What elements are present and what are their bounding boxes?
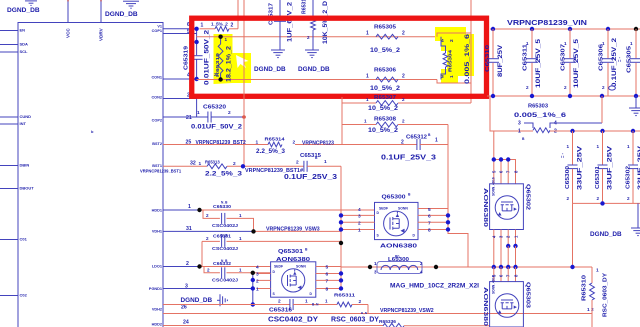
svg-text:C65330: C65330 bbox=[213, 204, 232, 209]
svg-text:C65332: C65332 bbox=[213, 261, 232, 266]
wire vertical node COP1 bbox=[196, 29, 198, 55]
wire R65305 row left segment bbox=[197, 36, 437, 38]
svg-text:1: 1 bbox=[374, 261, 377, 266]
junction bbox=[506, 265, 510, 269]
svg-text:2: 2 bbox=[207, 268, 210, 273]
wire R65304 kelvin hooks bbox=[441, 37, 446, 80]
svg-text:VRPNCP81239_VSW3: VRPNCP81239_VSW3 bbox=[266, 226, 320, 232]
svg-text:2: 2 bbox=[597, 196, 600, 201]
resistor R65305 10_5%_2 bbox=[376, 34, 398, 39]
capacitor C65307 10UF_25V_5 bbox=[569, 29, 571, 58]
svg-text:VDH2: VDH2 bbox=[152, 308, 162, 312]
svg-text:AON6380: AON6380 bbox=[482, 188, 488, 227]
junction bbox=[499, 157, 503, 161]
svg-text:Q65302: Q65302 bbox=[525, 184, 531, 210]
junction bbox=[251, 271, 255, 275]
svg-text:SEDF: SEDF bbox=[379, 206, 388, 210]
junction bbox=[368, 265, 372, 269]
svg-text:SONN: SONN bbox=[296, 265, 306, 269]
svg-text:R65313: R65313 bbox=[205, 160, 220, 165]
capacitor C65320 0.01UF_50V_2 bbox=[163, 116, 208, 118]
svg-text:10_5%_2: 10_5%_2 bbox=[370, 48, 401, 54]
svg-text:2: 2 bbox=[449, 39, 455, 42]
junction bbox=[530, 27, 534, 31]
svg-text:2: 2 bbox=[602, 85, 605, 90]
wire COP1 cap to CON1 bbox=[196, 59, 198, 79]
svg-text:C65307: C65307 bbox=[561, 44, 567, 71]
annotation red box bbox=[192, 18, 487, 96]
capacitor C65319 bbox=[191, 55, 203, 57]
wire VIN rail bbox=[490, 28, 640, 30]
svg-text:32: 32 bbox=[190, 161, 196, 167]
svg-text:1: 1 bbox=[366, 97, 369, 102]
svg-text:R65311: R65311 bbox=[334, 293, 355, 299]
svg-text:1: 1 bbox=[324, 159, 327, 165]
wire pin4 CON1 row bbox=[163, 78, 197, 80]
svg-text:C65320: C65320 bbox=[203, 105, 226, 111]
svg-text:C65306: C65306 bbox=[599, 44, 605, 71]
ground DGND_DB in box left bbox=[271, 49, 285, 51]
resistor R65311 RSC_0603_DY bbox=[337, 302, 352, 307]
capacitor C65300 33UF_25V bbox=[572, 131, 574, 165]
wire Q65301 left pins bbox=[257, 273, 271, 275]
svg-text:21: 21 bbox=[186, 115, 192, 121]
svg-text:INT: INT bbox=[20, 121, 27, 126]
svg-text:2.2_5%_3: 2.2_5%_3 bbox=[205, 171, 242, 178]
svg-text:1: 1 bbox=[518, 129, 521, 135]
junction bbox=[339, 278, 343, 282]
resistor R65307 10_5%_2 bbox=[342, 102, 376, 104]
junction bbox=[251, 286, 255, 290]
svg-text:2: 2 bbox=[401, 140, 404, 146]
resistor R65312 bbox=[312, 0, 314, 18]
svg-text:33UF_25V: 33UF_25V bbox=[577, 145, 584, 190]
ground top right bbox=[635, 96, 637, 108]
svg-text:AON6380: AON6380 bbox=[380, 243, 417, 249]
wire BST2 net to C65312 bbox=[295, 144, 417, 146]
svg-text:R65308: R65308 bbox=[374, 117, 396, 123]
svg-text:COP2: COP2 bbox=[152, 119, 162, 123]
junction bbox=[491, 27, 495, 31]
ground DGND_DB above VDRV bbox=[123, 0, 139, 2]
wire output rail y131 bbox=[550, 130, 640, 132]
svg-text:1 2: 1 2 bbox=[587, 307, 594, 313]
wire red riser x342 bbox=[341, 97, 343, 145]
svg-text:BST1: BST1 bbox=[152, 164, 162, 168]
svg-text:3: 3 bbox=[358, 214, 361, 220]
svg-text:8: 8 bbox=[428, 228, 431, 234]
capacitor C65330 CSC0402 bbox=[203, 210, 254, 231]
wire BST1 row bbox=[163, 165, 207, 167]
svg-text:DBOUT: DBOUT bbox=[20, 186, 35, 191]
wire INT pin stub bbox=[0, 123, 18, 125]
junction bbox=[492, 157, 496, 161]
svg-text:SCL: SCL bbox=[20, 49, 29, 54]
junction bbox=[631, 129, 635, 133]
wire LDO1 row bbox=[163, 266, 200, 268]
junction bbox=[339, 213, 343, 217]
resistor R65309 1_5%_2 bbox=[200, 28, 216, 30]
svg-text:PGND1: PGND1 bbox=[149, 287, 162, 291]
svg-text:2: 2 bbox=[402, 119, 405, 124]
svg-text:C02: C02 bbox=[20, 293, 28, 298]
svg-text:2: 2 bbox=[567, 196, 570, 201]
svg-text:2: 2 bbox=[278, 299, 281, 305]
junction bbox=[339, 286, 343, 290]
svg-text:5: 5 bbox=[326, 265, 329, 271]
svg-text:R65305: R65305 bbox=[374, 25, 396, 31]
svg-text:3: 3 bbox=[441, 74, 444, 80]
svg-text:D: D bbox=[377, 211, 380, 215]
svg-text:CUND: CUND bbox=[20, 114, 32, 119]
junction bbox=[194, 40, 198, 44]
ground DGND_DB sideways bbox=[219, 294, 221, 306]
junction bbox=[251, 302, 255, 306]
svg-text:1: 1 bbox=[325, 299, 328, 304]
svg-text:Q65300: Q65300 bbox=[382, 194, 406, 200]
svg-text:2: 2 bbox=[359, 299, 362, 305]
junction bbox=[634, 27, 638, 31]
wire red riser x244 bbox=[243, 0, 245, 37]
junction bbox=[446, 213, 450, 217]
svg-text:0.01UF_50V_2: 0.01UF_50V_2 bbox=[204, 29, 211, 85]
svg-text:10K_5%_2_D: 10K_5%_2_D bbox=[323, 0, 329, 44]
svg-text:1: 1 bbox=[597, 144, 600, 149]
capacitor C65310 8UF_25V bbox=[492, 29, 494, 58]
svg-text:0.1UF_25V_3: 0.1UF_25V_3 bbox=[284, 174, 337, 181]
svg-text:C65316: C65316 bbox=[269, 308, 292, 314]
svg-text:10_5%_2: 10_5%_2 bbox=[370, 86, 401, 92]
junction bbox=[530, 94, 534, 98]
resistor R65336 bbox=[383, 323, 404, 327]
svg-text:0.005_1%_6: 0.005_1%_6 bbox=[464, 33, 471, 84]
svg-text:SDA: SDA bbox=[20, 42, 29, 47]
svg-text:1: 1 bbox=[239, 213, 242, 218]
svg-text:SONN: SONN bbox=[398, 206, 408, 210]
junction bbox=[600, 94, 604, 98]
junction bbox=[194, 77, 198, 81]
svg-text:1: 1 bbox=[449, 75, 455, 78]
ground DGND_DB in box right bbox=[305, 49, 319, 51]
wire R65303 kelvin bbox=[524, 123, 602, 128]
junction bbox=[251, 278, 255, 282]
resistor R65304 0.005_1%_6 bbox=[443, 53, 448, 67]
wire HDD2 gate row bbox=[163, 325, 383, 327]
svg-text:2: 2 bbox=[420, 261, 423, 266]
resistor R65306 10_5%_2 bbox=[376, 77, 398, 82]
wire EN pin stub bbox=[0, 30, 18, 32]
svg-text:C01: C01 bbox=[20, 237, 28, 242]
wire CUND pin stub bbox=[0, 116, 18, 118]
wire SCL pin stub bbox=[0, 51, 18, 53]
svg-text:4: 4 bbox=[441, 38, 444, 44]
svg-text:LDO1: LDO1 bbox=[152, 265, 162, 269]
svg-text:B: B bbox=[428, 133, 431, 137]
junction bbox=[568, 94, 572, 98]
junction bbox=[570, 129, 574, 133]
svg-text:1: 1 bbox=[364, 119, 367, 124]
svg-text:D: D bbox=[413, 234, 416, 238]
capacitor C65306 0.1UF_25V_2 bbox=[607, 29, 609, 58]
capacitor C65331 CSC0402 bbox=[202, 241, 341, 266]
svg-text:1: 1 bbox=[602, 41, 605, 46]
wire CON2 down to C65320 bbox=[196, 99, 198, 118]
svg-text:0.1UF_25V_3: 0.1UF_25V_3 bbox=[381, 155, 436, 162]
svg-text:SONN_4D16: SONN_4D16 bbox=[492, 177, 496, 196]
svg-text:B: B bbox=[522, 137, 525, 141]
junction bbox=[446, 220, 450, 224]
capacitor C65301 33UF_25V bbox=[602, 131, 604, 165]
svg-text:CSC0402J: CSC0402J bbox=[212, 278, 239, 283]
svg-text:SEDF: SEDF bbox=[274, 265, 283, 269]
resistor R65314 2.2_5%_3 bbox=[268, 142, 282, 147]
svg-text:VRPNCP81239_BST1: VRPNCP81239_BST1 bbox=[140, 169, 182, 174]
wire R65303 right riser bbox=[601, 96, 603, 123]
svg-text:1: 1 bbox=[256, 140, 259, 146]
svg-text:Q65301: Q65301 bbox=[278, 249, 303, 255]
svg-text:= -: = - bbox=[560, 152, 565, 158]
svg-text:B: B bbox=[408, 193, 411, 197]
wire VSW2 trunk bbox=[163, 305, 592, 314]
svg-text:C65310: C65310 bbox=[485, 45, 491, 72]
svg-text:1: 1 bbox=[627, 144, 630, 149]
wire output cap bottom rail bbox=[573, 202, 640, 204]
svg-text:DGND_DB: DGND_DB bbox=[298, 66, 330, 73]
wire VDH1 VSW3 row bbox=[163, 230, 254, 232]
wire HDD1 gate row bbox=[163, 209, 200, 211]
svg-text:4: 4 bbox=[256, 265, 259, 271]
svg-text:2: 2 bbox=[228, 110, 231, 116]
junction bbox=[339, 227, 343, 231]
svg-text:1: 1 bbox=[225, 37, 228, 42]
wire C01 pin stub bbox=[0, 239, 18, 241]
wire Q65302 bottom pins bbox=[493, 230, 495, 247]
svg-text:3: 3 bbox=[256, 272, 259, 278]
svg-text:1: 1 bbox=[358, 228, 361, 234]
junction bbox=[446, 227, 450, 231]
svg-text:3: 3 bbox=[374, 270, 377, 275]
wire pin6 V1 row bbox=[163, 28, 197, 30]
svg-text:2: 2 bbox=[206, 213, 209, 218]
svg-text:MAG_HMD_10CZ_2R2M_X2I: MAG_HMD_10CZ_2R2M_X2I bbox=[390, 284, 479, 290]
svg-text:8UF_25V: 8UF_25V bbox=[497, 44, 504, 77]
wire PGND vertical bbox=[252, 273, 254, 305]
svg-text:6: 6 bbox=[428, 214, 431, 220]
svg-text:b: b bbox=[91, 129, 94, 134]
svg-text:C65315: C65315 bbox=[300, 153, 321, 159]
svg-text:2: 2 bbox=[206, 236, 209, 241]
inductor L65300 MAG_HMD_10CZ_2R2M_X2I bbox=[377, 262, 422, 274]
svg-text:2.2_5%_3: 2.2_5%_3 bbox=[256, 149, 286, 155]
ground DGND_DB top-left bbox=[25, 0, 37, 2]
svg-text:CON1: CON1 bbox=[151, 76, 162, 80]
svg-text:R65336: R65336 bbox=[379, 319, 396, 325]
svg-text:2: 2 bbox=[256, 279, 259, 285]
svg-text:24: 24 bbox=[183, 320, 189, 326]
junction bbox=[506, 157, 510, 161]
svg-text:10_5%_2: 10_5%_2 bbox=[368, 128, 399, 134]
svg-text:7: 7 bbox=[326, 279, 329, 285]
svg-text:2: 2 bbox=[233, 161, 236, 167]
svg-text:1: 1 bbox=[197, 110, 200, 116]
wire phase node riser x448 bbox=[448, 125, 468, 268]
wire DBOUT pin stub bbox=[0, 188, 18, 190]
svg-text:RSC_0603_DY: RSC_0603_DY bbox=[603, 273, 609, 317]
capacitor C65316 CSC0402_DY bbox=[289, 299, 291, 310]
svg-text:R65304: R65304 bbox=[448, 49, 453, 72]
wire R65310 top bbox=[591, 267, 593, 283]
wire red riser to top bbox=[237, 0, 239, 29]
svg-text:2: 2 bbox=[402, 31, 405, 37]
capacitor C65315 0.1UF_25V_3 bbox=[303, 161, 305, 172]
svg-text:VRPNCP81239_VIN: VRPNCP81239_VIN bbox=[507, 18, 587, 27]
transistor Q65303 AON6380 bbox=[490, 282, 524, 327]
svg-text:1: 1 bbox=[256, 287, 259, 293]
junction bbox=[339, 220, 343, 224]
svg-text:2: 2 bbox=[627, 196, 630, 201]
svg-text:DGND_DB: DGND_DB bbox=[7, 7, 40, 14]
svg-text:DGND_DB: DGND_DB bbox=[254, 66, 286, 73]
svg-text:VDRV: VDRV bbox=[99, 27, 104, 41]
svg-text:26: 26 bbox=[181, 305, 187, 311]
svg-text:2: 2 bbox=[564, 85, 567, 90]
capacitor C65311 10UF_25V_5 bbox=[531, 29, 533, 58]
svg-text:R65310: R65310 bbox=[582, 275, 588, 301]
wire SW row y267 bbox=[341, 266, 592, 268]
svg-text:7: 7 bbox=[428, 221, 431, 227]
cursor arrow in highlight bbox=[236, 55, 249, 68]
svg-text:2: 2 bbox=[358, 221, 361, 227]
marker oval bbox=[609, 86, 616, 90]
highlight yellow R65319 bbox=[214, 34, 252, 84]
wire DBIN pin stub bbox=[0, 165, 18, 167]
svg-text:R65306: R65306 bbox=[374, 68, 396, 74]
svg-text:R65303: R65303 bbox=[528, 104, 548, 110]
capacitor C65312 0.1UF_25V_3 bbox=[416, 139, 418, 150]
svg-text:1: 1 bbox=[188, 204, 191, 210]
junction bbox=[634, 94, 638, 98]
svg-text:DGND_DB: DGND_DB bbox=[181, 297, 213, 304]
ground DGND_DB right bbox=[637, 203, 639, 228]
wire Q65300 left pins bbox=[341, 214, 375, 216]
VCC pin wire bbox=[67, 0, 69, 23]
junction bbox=[491, 94, 495, 98]
svg-text:4: 4 bbox=[554, 121, 557, 127]
svg-text:5: 5 bbox=[428, 207, 431, 213]
junction bbox=[197, 208, 201, 212]
svg-text:1: 1 bbox=[305, 299, 308, 305]
svg-text:4: 4 bbox=[420, 270, 423, 275]
svg-text:CSC0402J: CSC0402J bbox=[212, 223, 239, 228]
wire Q65300 right pins bbox=[418, 208, 448, 210]
junction bbox=[499, 265, 503, 269]
wire R65303 left bbox=[490, 96, 533, 131]
svg-text:0.01UF_50V_2: 0.01UF_50V_2 bbox=[191, 124, 242, 131]
svg-text:Q65303: Q65303 bbox=[525, 282, 531, 308]
junction bbox=[570, 265, 574, 269]
svg-text:B_N: B_N bbox=[361, 311, 367, 315]
svg-text:10UF_25V_5: 10UF_25V_5 bbox=[573, 38, 580, 88]
svg-text:C65300: C65300 bbox=[565, 166, 571, 189]
transistor Q65302 AON6380 bbox=[490, 184, 524, 230]
wire red riser x471 bbox=[470, 0, 472, 103]
VDRV pin wire bbox=[100, 0, 102, 23]
wire BST2 row bbox=[163, 144, 268, 146]
junction bbox=[339, 271, 343, 275]
junction bbox=[242, 115, 246, 119]
svg-text:1: 1 bbox=[567, 144, 570, 149]
svg-text:18.2_1%_2: 18.2_1%_2 bbox=[227, 45, 233, 82]
svg-text:1: 1 bbox=[596, 268, 599, 274]
svg-text:2: 2 bbox=[402, 74, 405, 80]
svg-text:S: S bbox=[273, 292, 276, 296]
svg-text:D: D bbox=[273, 270, 276, 274]
svg-text:B_N: B_N bbox=[312, 303, 319, 307]
wire VDH2 row bbox=[163, 304, 290, 306]
svg-text:HDD1: HDD1 bbox=[152, 209, 162, 213]
svg-text:C65302: C65302 bbox=[626, 166, 632, 189]
svg-text:SONN_4D16: SONN_4D16 bbox=[492, 275, 496, 294]
wire pin5 COP1 row bbox=[163, 33, 197, 35]
junction bbox=[251, 229, 255, 233]
svg-text:C65317: C65317 bbox=[269, 3, 275, 25]
svg-text:1: 1 bbox=[366, 74, 369, 80]
wire pin CON2 stub bbox=[163, 98, 197, 100]
svg-text:D: D bbox=[310, 292, 313, 296]
junction bbox=[606, 27, 610, 31]
wire R65310 bottom bbox=[591, 300, 593, 327]
svg-text:R65314: R65314 bbox=[265, 137, 285, 143]
svg-text:DBIN: DBIN bbox=[20, 163, 30, 168]
svg-text:1: 1 bbox=[630, 41, 633, 46]
capacitor C65317 bbox=[279, 0, 281, 18]
svg-text:VRPNCP8123: VRPNCP8123 bbox=[302, 140, 334, 146]
junction bbox=[513, 265, 517, 269]
wire VIN bottom rail bbox=[487, 95, 640, 97]
resistor R65313 2.2_5%_3 bbox=[207, 164, 227, 169]
wire Q65303 top pins bbox=[493, 267, 495, 282]
svg-text:1: 1 bbox=[435, 138, 438, 144]
svg-text:1: 1 bbox=[239, 268, 242, 273]
svg-text:1: 1 bbox=[239, 236, 242, 241]
svg-text:10UF_25V_5: 10UF_25V_5 bbox=[535, 38, 542, 88]
wire PGND1 row bbox=[163, 288, 253, 290]
svg-text:B: B bbox=[305, 248, 308, 252]
svg-text:S: S bbox=[377, 234, 380, 238]
svg-text:1: 1 bbox=[526, 41, 529, 46]
capacitor C65305 bbox=[635, 29, 637, 58]
wire Q65302 feed bbox=[494, 131, 516, 168]
svg-text:33UF_25V: 33UF_25V bbox=[607, 145, 614, 190]
svg-text:1: 1 bbox=[201, 23, 204, 29]
resistor R65308 10_5%_2 bbox=[342, 124, 376, 126]
junction bbox=[600, 129, 604, 133]
junction bbox=[492, 265, 496, 269]
wire Q65302 to SW bbox=[493, 246, 495, 267]
svg-text:C65312: C65312 bbox=[406, 135, 427, 141]
svg-text:L65300: L65300 bbox=[388, 257, 409, 263]
svg-text:DGND_DB: DGND_DB bbox=[590, 231, 622, 238]
svg-text:R65307: R65307 bbox=[374, 95, 396, 101]
svg-text:1UF_63V_2: 1UF_63V_2 bbox=[287, 1, 294, 42]
svg-text:AON6380: AON6380 bbox=[482, 287, 488, 326]
svg-text:= -: = - bbox=[617, 56, 622, 62]
svg-text:CSC0402_DY: CSC0402_DY bbox=[268, 317, 318, 324]
svg-text:0.005_1%_6: 0.005_1%_6 bbox=[514, 112, 566, 119]
svg-text:HDD2: HDD2 bbox=[152, 323, 162, 327]
svg-text:1: 1 bbox=[366, 31, 369, 37]
svg-text:2: 2 bbox=[402, 97, 405, 102]
